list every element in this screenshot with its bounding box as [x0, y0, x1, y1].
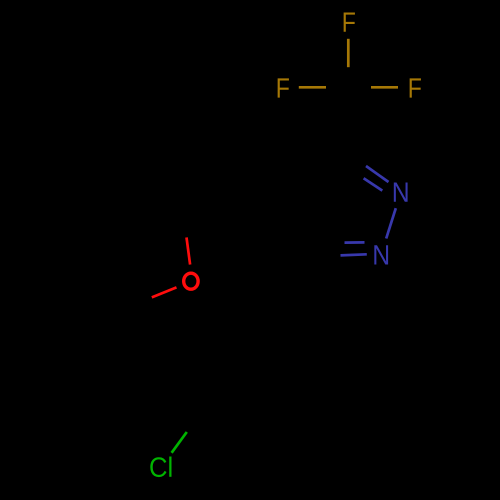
- bond C-Cl (Cl side half): [172, 432, 187, 453]
- atom label N2: [394, 183, 408, 202]
- atom label O: [184, 273, 198, 289]
- bond O-CH3 lower-left (O side half): [152, 287, 177, 297]
- bond C5=N1 main line (N side half): [341, 254, 367, 255]
- atom label N1: [374, 245, 388, 264]
- bond C-F top (F side half): [347, 39, 350, 67]
- atom label F right: [410, 78, 421, 97]
- bond N2-N1: [386, 208, 396, 238]
- atom label Cl: [150, 457, 171, 478]
- bond C-F left (F side half): [299, 86, 326, 89]
- bond C-F right (F side half): [371, 86, 398, 89]
- atom label F left: [278, 78, 289, 97]
- atom label F top: [344, 13, 355, 32]
- bond C3=N2 main line (N side half): [366, 166, 389, 182]
- bond C-O upper (O side half): [187, 237, 191, 264]
- bond C3=N2 inner double line (N side half): [364, 178, 383, 190]
- bond C5=N1 inner double line (N side half): [345, 241, 365, 244]
